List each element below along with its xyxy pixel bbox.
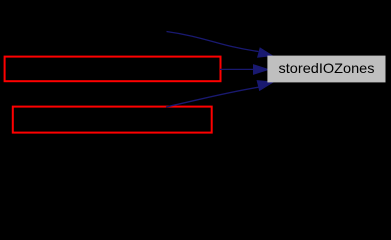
arrowhead of bottom edge [257, 81, 273, 91]
wire: edge from caller 1 (middle, horizontal) [220, 68, 255, 70]
wire: edge from hidden caller node (top) [167, 32, 259, 52]
arrowhead of top edge [258, 48, 273, 57]
node caller 2 (red box, label hidden) [13, 107, 212, 133]
node storedIOZones (current node, grey) [267, 56, 385, 83]
arrowhead of middle edge [254, 65, 269, 74]
svg-text:storedIOZones: storedIOZones [279, 60, 375, 76]
node caller 1 (red box, label hidden) [5, 57, 221, 82]
wire: edge from caller 2 (bottom) [166, 87, 259, 107]
